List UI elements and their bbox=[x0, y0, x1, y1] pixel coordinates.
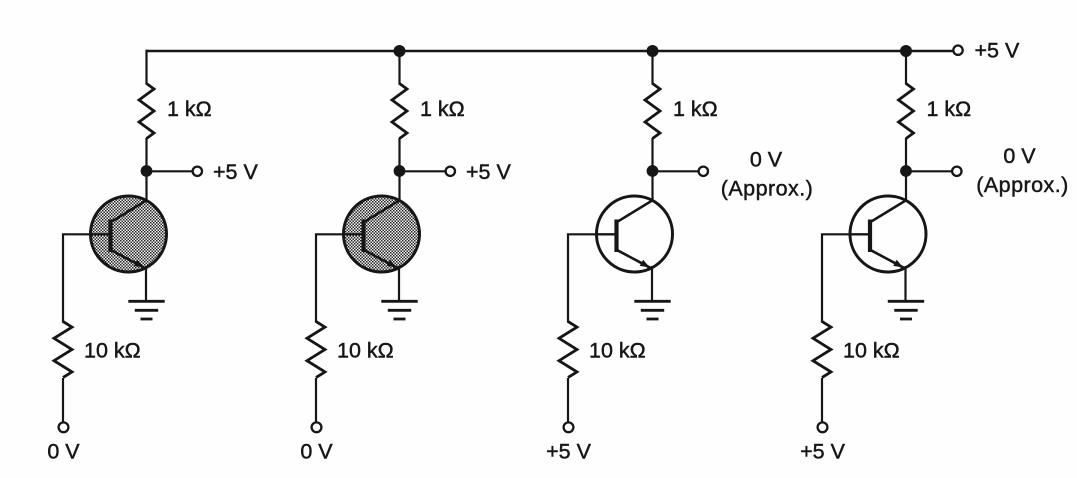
wire rail to R4a (branch 4) bbox=[905, 50, 907, 85]
terminal input open circle (branch 4) bbox=[818, 422, 828, 432]
wire node to collector entry (branch 3) bbox=[651, 171, 653, 201]
svg-text:(Approx.): (Approx.) bbox=[721, 177, 813, 201]
wire emitter to ground (branch 3) bbox=[651, 266, 653, 301]
node junction on rail at x=906 bbox=[900, 45, 912, 57]
svg-text:+5 V: +5 V bbox=[466, 160, 511, 184]
node collector junction (branch 2) bbox=[394, 165, 406, 177]
wire R3b to input terminal (branch 3) bbox=[567, 378, 569, 422]
svg-text:1 kΩ: 1 kΩ bbox=[927, 97, 972, 121]
wire rail to R2a (branch 2) bbox=[398, 50, 400, 85]
wire R4a to collector node (branch 4) bbox=[905, 138, 907, 171]
wire rail to R3a (branch 3) bbox=[651, 50, 653, 85]
node collector junction (branch 4) bbox=[900, 165, 912, 177]
svg-text:10 kΩ: 10 kΩ bbox=[84, 339, 141, 363]
transistor Q3 (cut-off) bbox=[597, 196, 673, 272]
svg-text:0 V: 0 V bbox=[47, 440, 80, 464]
svg-text:0 V: 0 V bbox=[1003, 144, 1036, 168]
svg-text:10 kΩ: 10 kΩ bbox=[589, 339, 646, 363]
terminal input open circle (branch 1) bbox=[59, 422, 69, 432]
wire R1b to input terminal (branch 1) bbox=[62, 378, 64, 422]
resistor R3b 10 kOhm bbox=[559, 322, 577, 378]
wire R2a to collector node (branch 2) bbox=[398, 138, 400, 171]
svg-text:+5 V: +5 V bbox=[975, 38, 1020, 62]
terminal output open circle (branch 2) bbox=[446, 167, 455, 176]
ground (branch 4) bbox=[888, 301, 924, 319]
resistor R1a 1 kOhm bbox=[139, 84, 154, 139]
svg-text:0 V: 0 V bbox=[750, 148, 783, 172]
svg-text:+5 V: +5 V bbox=[800, 440, 845, 464]
svg-text:+5 V: +5 V bbox=[213, 160, 258, 184]
wire node to collector entry (branch 4) bbox=[905, 171, 907, 201]
wire R2b to input terminal (branch 2) bbox=[315, 378, 317, 422]
wire +5V supply rail bbox=[146, 50, 952, 53]
terminal output open circle (branch 1) bbox=[193, 167, 202, 176]
wire base to R4b (branch 4) bbox=[822, 234, 851, 322]
terminal input open circle (branch 2) bbox=[312, 422, 322, 432]
wire emitter to ground (branch 4) bbox=[904, 266, 906, 301]
transistor Q1 (saturated, shaded) bbox=[91, 196, 167, 272]
terminal output open circle (branch 4) bbox=[952, 167, 961, 176]
node collector junction (branch 1) bbox=[141, 165, 153, 177]
ground (branch 1) bbox=[128, 301, 164, 319]
wire rail to R1a (branch 1) bbox=[145, 50, 147, 85]
node junction on rail at x=652.5 bbox=[647, 45, 659, 57]
wire node to output terminal (branch 2) bbox=[400, 170, 446, 172]
terminal output open circle (branch 3) bbox=[699, 167, 708, 176]
wire node to output terminal (branch 3) bbox=[653, 170, 699, 172]
wire R3a to collector node (branch 3) bbox=[651, 138, 653, 171]
wire R4b to input terminal (branch 4) bbox=[821, 378, 823, 422]
svg-text:1 kΩ: 1 kΩ bbox=[673, 97, 718, 121]
resistor R1b 10 kOhm bbox=[54, 322, 72, 378]
wire R1a to collector node (branch 1) bbox=[145, 138, 147, 171]
wire base to R2b (branch 2) bbox=[316, 234, 345, 322]
node junction on rail at x=399.5 bbox=[394, 45, 406, 57]
svg-text:(Approx.): (Approx.) bbox=[976, 173, 1068, 197]
resistor R2a 1 kOhm bbox=[392, 84, 407, 139]
wire node to output terminal (branch 1) bbox=[147, 170, 193, 172]
svg-text:10 kΩ: 10 kΩ bbox=[337, 339, 394, 363]
transistor Q2 (saturated, shaded) bbox=[344, 196, 420, 272]
svg-text:+5 V: +5 V bbox=[546, 440, 591, 464]
wire node to collector entry (branch 2) bbox=[398, 171, 400, 201]
resistor R2b 10 kOhm bbox=[307, 322, 325, 378]
wire base to R3b (branch 3) bbox=[568, 234, 598, 322]
transistor Q4 (cut-off) bbox=[850, 196, 926, 272]
wire node to collector entry (branch 1) bbox=[145, 171, 147, 201]
wire emitter to ground (branch 2) bbox=[398, 266, 400, 301]
resistor R4a 1 kOhm bbox=[899, 84, 914, 139]
resistor R3a 1 kOhm bbox=[645, 84, 660, 139]
svg-text:10 kΩ: 10 kΩ bbox=[843, 339, 900, 363]
svg-text:1 kΩ: 1 kΩ bbox=[167, 97, 212, 121]
svg-text:1 kΩ: 1 kΩ bbox=[420, 97, 465, 121]
ground (branch 3) bbox=[634, 301, 670, 319]
wire emitter to ground (branch 1) bbox=[145, 266, 147, 301]
terminal input open circle (branch 3) bbox=[564, 422, 574, 432]
resistor R4b 10 kOhm bbox=[813, 322, 831, 378]
terminal +5V rail open circle bbox=[953, 46, 962, 55]
wire node to output terminal (branch 4) bbox=[906, 170, 952, 172]
wire base to R1b (branch 1) bbox=[63, 234, 92, 322]
ground (branch 2) bbox=[381, 301, 417, 319]
svg-text:0 V: 0 V bbox=[300, 440, 333, 464]
node collector junction (branch 3) bbox=[647, 165, 659, 177]
